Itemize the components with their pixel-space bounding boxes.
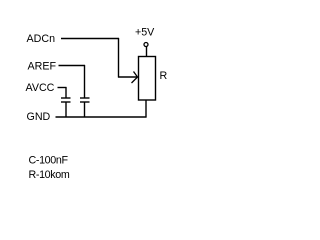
wire C1 bottom lead xyxy=(65,102,67,117)
wire AREF vertical drop to C2 xyxy=(84,65,86,98)
svg-text:C-100nF: C-100nF xyxy=(29,155,69,167)
capacitor C2 top plate xyxy=(80,97,90,99)
capacitor C1 top plate xyxy=(61,97,71,99)
wire AVCC vertical drop to C1 xyxy=(65,87,67,98)
capacitor C1 bottom plate xyxy=(61,101,71,103)
resistor R body xyxy=(139,57,156,101)
+5V terminal circle xyxy=(144,43,148,47)
wire GND horizontal xyxy=(56,116,147,118)
svg-text:+5V: +5V xyxy=(135,27,155,39)
svg-text:GND: GND xyxy=(27,111,51,123)
wire wiper arrow horizontal xyxy=(118,76,138,78)
svg-text:ADCn: ADCn xyxy=(27,33,56,45)
svg-text:AVCC: AVCC xyxy=(26,82,55,94)
wire AVCC horizontal xyxy=(58,87,67,89)
wire resistor top lead xyxy=(146,47,148,57)
wire ADCn horizontal xyxy=(61,38,119,40)
wire C2 bottom lead xyxy=(84,102,86,117)
svg-text:R-10kom: R-10kom xyxy=(29,169,70,181)
capacitor C2 bottom plate xyxy=(80,101,90,103)
svg-text:AREF: AREF xyxy=(28,61,57,73)
wire resistor bottom lead xyxy=(145,100,147,118)
wire AREF horizontal xyxy=(59,65,86,67)
wiper arrowhead xyxy=(132,72,138,84)
svg-text:R: R xyxy=(160,70,168,82)
wire ADCn vertical drop xyxy=(118,38,120,78)
